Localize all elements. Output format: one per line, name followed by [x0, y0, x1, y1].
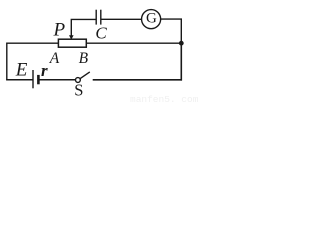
svg-text:r: r — [41, 61, 48, 80]
svg-text:E: E — [15, 60, 28, 81]
svg-text:A: A — [49, 50, 60, 67]
svg-text:C: C — [95, 24, 107, 43]
svg-text:manfen5. com: manfen5. com — [130, 94, 199, 105]
svg-text:G: G — [146, 11, 157, 27]
svg-text:S: S — [74, 81, 83, 100]
svg-text:B: B — [79, 50, 89, 67]
svg-text:P: P — [53, 19, 66, 40]
